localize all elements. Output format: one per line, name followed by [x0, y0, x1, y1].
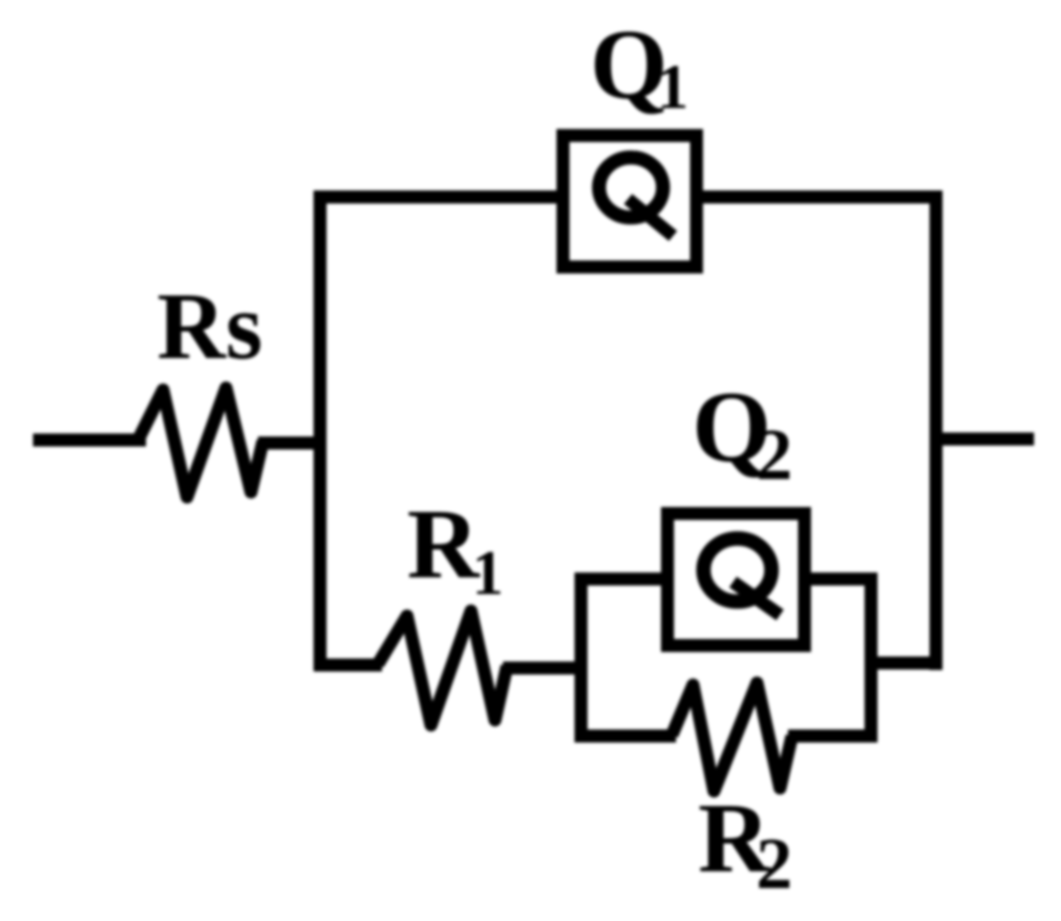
wire main loop: left vertical, top wire, right vertical	[320, 197, 936, 671]
CPE element Q2 box letter Q	[704, 539, 781, 616]
svg-text:1: 1	[472, 538, 504, 608]
resistor Rs	[138, 388, 263, 497]
resistor R1	[378, 611, 507, 725]
CPE element Q1 box letter Q	[599, 158, 673, 237]
resistor R2	[672, 683, 792, 791]
wire bottom branch left	[314, 659, 382, 672]
wire Rs to left node	[258, 437, 326, 450]
CPE element Q2 box	[668, 514, 805, 646]
wire bottom rail right segment	[788, 730, 878, 743]
wire input lead	[33, 434, 146, 447]
CPE element Q1 box	[563, 136, 697, 268]
svg-text:1: 1	[657, 52, 689, 122]
svg-text:2: 2	[756, 414, 793, 495]
svg-text:Rs: Rs	[157, 273, 263, 379]
svg-text:2: 2	[756, 823, 793, 904]
wire parallel cell to right vertical	[865, 657, 943, 670]
wire R1 to parallel cell	[503, 662, 587, 675]
wire bottom rail left segment	[575, 730, 677, 743]
svg-text:R: R	[407, 488, 481, 599]
wire output lead	[936, 433, 1034, 446]
wire parallel cell brackets and top rail	[581, 579, 871, 743]
